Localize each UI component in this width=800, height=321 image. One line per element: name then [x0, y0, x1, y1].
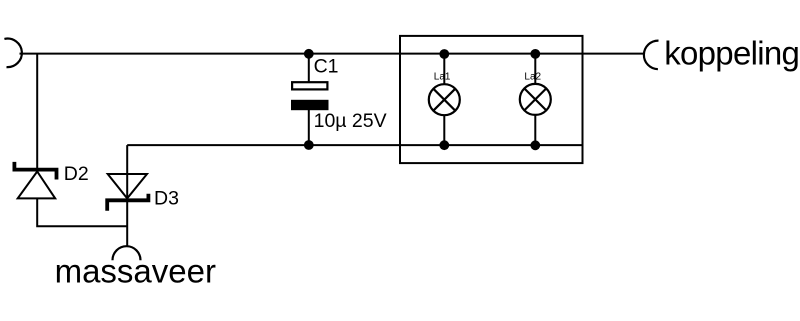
label koppeling: [664, 35, 799, 72]
lamp box outline: [400, 36, 583, 163]
node junction dot La2 bottom: [530, 140, 540, 150]
label D3: [154, 188, 179, 210]
label C1: [314, 56, 339, 78]
lamp La1: [429, 84, 460, 115]
wire La1 bottom lead: [443, 115, 445, 145]
label D2: [64, 163, 89, 185]
capacitor C1 bottom plate: [291, 100, 329, 110]
svg-text:La2: La2: [524, 71, 541, 82]
wire from main wire down to D2: [36, 54, 38, 171]
svg-text:massaveer: massaveer: [55, 253, 216, 290]
node junction dot La1 top: [439, 49, 449, 59]
node junction dot La1 bottom: [439, 140, 449, 150]
wire main top horizontal: [20, 53, 646, 55]
node junction dot C1 bottom: [304, 140, 314, 150]
capacitor C1 top plate: [292, 82, 327, 89]
wire from lower bus down through D3 to ground arc: [126, 145, 128, 246]
svg-text:D2: D2: [64, 163, 89, 185]
label La1: [434, 71, 451, 82]
zener diode D2: [14, 162, 56, 199]
wire capacitor bottom lead: [308, 110, 310, 145]
node junction dot C1 top: [304, 49, 314, 59]
connector (left plug): [4, 39, 21, 68]
svg-text:koppeling: koppeling: [664, 35, 799, 72]
label 10u 25V value: [314, 110, 387, 132]
label La2: [524, 71, 541, 82]
wire La1 top lead: [443, 54, 445, 84]
wire second horizontal (lower bus): [127, 144, 582, 146]
svg-text:C1: C1: [314, 56, 339, 78]
wire La2 top lead: [534, 54, 536, 84]
connector koppeling (right): [644, 41, 659, 70]
connector massaveer (ground spring): [113, 246, 141, 260]
wire La2 bottom lead: [534, 115, 536, 145]
wire D2 bottom down and right to D3 branch: [37, 198, 127, 226]
svg-text:D3: D3: [154, 188, 179, 210]
svg-text:La1: La1: [434, 71, 451, 82]
wire capacitor top lead: [308, 54, 310, 82]
svg-text:10µ 25V: 10µ 25V: [314, 110, 387, 132]
zener diode D3: [107, 174, 148, 211]
label massaveer: [55, 253, 216, 290]
lamp La2: [520, 84, 551, 115]
node junction dot La2 top: [530, 49, 540, 59]
